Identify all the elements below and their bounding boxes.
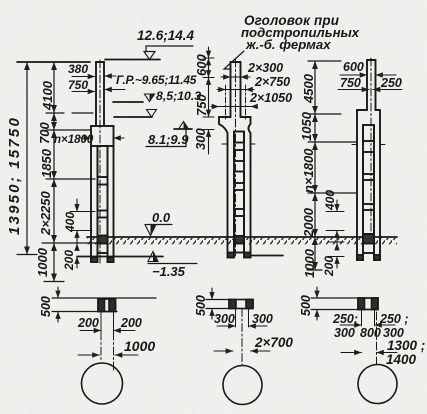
right chain 4500/1050/nx1800/2000/1000	[307, 61, 356, 270]
right column axis	[370, 58, 372, 234]
extension lines for 750	[225, 85, 227, 120]
inner chain 400/200 left column	[70, 199, 95, 268]
axis middle section	[241, 309, 243, 366]
middle column	[219, 62, 251, 258]
axis right section	[376, 312, 378, 364]
left column	[91, 62, 114, 262]
section A-A left plate	[52, 297, 156, 299]
dimension chain segments 4100/700/1850/2x2250/1000	[42, 62, 96, 282]
leader line	[224, 51, 244, 69]
section A-A left chain	[57, 287, 59, 298]
foundation line right of middle column	[252, 255, 283, 257]
dimension chain 13950;15750	[26, 62, 28, 255]
crane corbel ticks right	[352, 144, 357, 146]
chain 600/750/300 at x=208	[203, 47, 214, 154]
section middle plate	[206, 299, 229, 301]
ground line	[87, 236, 397, 238]
foundation circle left	[82, 363, 123, 404]
crane corbel ticks middle	[222, 143, 228, 145]
foundation circle right	[358, 365, 397, 404]
inner chain 400/200 right column	[326, 200, 344, 268]
extension lines below middle plate	[235, 309, 237, 328]
level -1.35	[77, 256, 163, 258]
left column axis	[99, 60, 101, 263]
section right plate	[311, 297, 378, 299]
right column	[357, 60, 380, 260]
top extension line over dimension chains	[17, 61, 90, 63]
foundation circle middle	[223, 366, 262, 405]
extension lines below left plate	[100, 312, 102, 333]
ground hatch	[87, 238, 397, 245]
extension lines below right plate	[361, 310, 363, 327]
axis lines left section	[100, 332, 102, 362]
middle column axis	[235, 59, 237, 256]
